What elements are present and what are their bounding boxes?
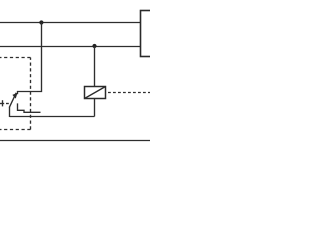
actuation line cross tick	[2, 100, 4, 106]
wire switch pivot down to bottom return wire	[9, 107, 11, 117]
relay coil K1 diagonal	[85, 87, 106, 99]
switch S1 lower fixed contact with stepped stub terminal	[18, 103, 41, 112]
wire from top-rail junction down and left to switch top fixed contact	[18, 23, 42, 95]
mechanical link dashed line from relay coil to right edge	[108, 92, 150, 94]
switch S1 lever arrowhead	[12, 93, 17, 99]
connector box X1 (cut off at right edge)	[141, 11, 153, 57]
dashed enclosure bottom edge	[0, 129, 31, 131]
relay coil K1 body	[85, 87, 106, 99]
wire relay coil bottom down to bottom return wire	[94, 99, 96, 117]
node junction dot on top rail	[39, 20, 43, 24]
wire mid-rail junction down to relay coil top	[94, 47, 96, 87]
wire mid supply rail	[0, 46, 141, 48]
switch S1 moving lever	[9, 93, 16, 108]
wire top supply rail	[0, 22, 141, 24]
wire bottom rail	[0, 140, 150, 142]
dashed enclosure right edge	[30, 58, 32, 130]
wire bottom return from switch pivot to relay coil bottom	[10, 116, 95, 118]
mechanical actuation line into switch lever	[0, 103, 9, 105]
dashed enclosure top edge	[0, 57, 31, 59]
node junction dot on mid rail	[92, 44, 96, 48]
